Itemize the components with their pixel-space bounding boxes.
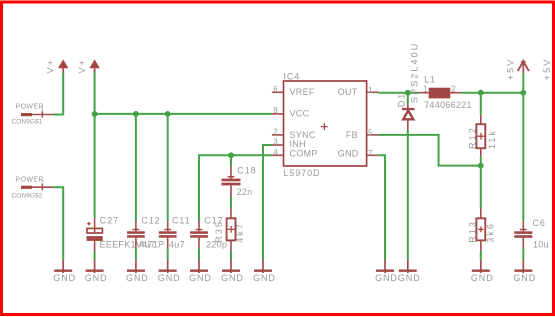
svg-text:R13: R13 xyxy=(468,220,478,243)
svg-text:GND: GND xyxy=(513,273,536,283)
diode D1 SPS2L40U xyxy=(397,42,420,130)
wire R12 to FB junction xyxy=(480,156,482,165)
op-amp / regulator IC4 L5970D xyxy=(284,71,367,178)
svg-text:1: 1 xyxy=(368,86,373,95)
svg-text:6: 6 xyxy=(273,85,278,94)
wire POWER1 to V+ xyxy=(53,72,63,114)
svg-text:GND: GND xyxy=(471,273,494,283)
svg-text:+5V: +5V xyxy=(506,58,516,81)
svg-text:D1: D1 xyxy=(397,92,407,108)
wire C12 branch xyxy=(135,114,137,221)
junction V+ rail / C27 xyxy=(92,111,98,117)
junction FB / R12 / R13 xyxy=(478,163,484,169)
svg-text:GND: GND xyxy=(398,273,421,283)
wire FB net xyxy=(378,135,481,166)
wire VCC rail xyxy=(95,113,272,115)
svg-text:1: 1 xyxy=(41,107,44,113)
supply V+ symbol 1 xyxy=(45,58,68,73)
svg-text:2: 2 xyxy=(273,127,278,136)
svg-text:GND: GND xyxy=(126,273,149,283)
wire V+2 stem down to VCC rail xyxy=(94,72,96,114)
junction rail / C11 xyxy=(165,111,171,117)
connector CON9G$1 (POWER) xyxy=(12,104,54,126)
capacitor C12 xyxy=(127,216,161,250)
svg-text:POWER: POWER xyxy=(16,177,44,184)
wire IC GND pin to GND symbol xyxy=(378,155,385,260)
svg-text:C12: C12 xyxy=(141,216,160,226)
svg-text:SPS2L40U: SPS2L40U xyxy=(410,42,420,103)
junction rail / C12 xyxy=(133,111,139,117)
svg-text:GND: GND xyxy=(85,273,108,283)
svg-text:1: 1 xyxy=(423,85,428,94)
ground symbol (C17) xyxy=(189,260,212,283)
svg-text:2: 2 xyxy=(41,180,44,186)
IC4 pin 4 COMP stub xyxy=(272,148,284,157)
svg-text:2: 2 xyxy=(451,85,456,94)
wire D1 to GND xyxy=(407,130,409,260)
resistor R13 xyxy=(468,208,496,251)
svg-text:R12: R12 xyxy=(468,126,478,149)
capacitor C6 xyxy=(514,218,549,249)
svg-text:744066221: 744066221 xyxy=(424,100,472,110)
IC4 pin 6 VREF stub xyxy=(272,85,284,94)
svg-text:4k7: 4k7 xyxy=(235,222,245,243)
ground symbol (R13) xyxy=(471,260,494,283)
wire R35 to GND xyxy=(230,251,232,261)
IC4 pin 8 VCC stub xyxy=(272,106,284,115)
IC4 pin 2 SYNC stub xyxy=(272,127,284,136)
wire C11 to GND xyxy=(167,248,169,260)
connector CON9G$1 pin 1 end cross xyxy=(41,107,44,117)
svg-text:GND: GND xyxy=(253,273,276,283)
svg-text:3: 3 xyxy=(273,138,278,147)
junction COMP / C18 xyxy=(228,152,234,158)
svg-text:C11: C11 xyxy=(172,216,191,226)
wire R13 branch xyxy=(480,166,482,208)
wire C18 to R35 xyxy=(230,197,232,208)
resistor R35 xyxy=(214,208,245,251)
wire C27 branch xyxy=(94,114,96,218)
inductor L1 744066221 xyxy=(419,75,472,110)
capacitor C11 xyxy=(159,216,191,250)
svg-text:IC4: IC4 xyxy=(284,71,301,81)
wire D1 branch xyxy=(407,93,409,105)
ground symbol (C11) xyxy=(158,260,181,283)
ground symbol (INH) xyxy=(253,260,276,283)
svg-text:4: 4 xyxy=(273,148,278,157)
ground symbol (C12) xyxy=(126,260,149,283)
svg-text:7: 7 xyxy=(368,149,373,158)
IC4 pin 3 INH stub xyxy=(272,138,284,147)
wire COMP net to C17 xyxy=(199,155,272,221)
svg-text:GND: GND xyxy=(375,273,398,283)
svg-text:COMP: COMP xyxy=(290,148,318,158)
svg-text:OUT: OUT xyxy=(338,87,358,97)
svg-text:3k6: 3k6 xyxy=(486,222,496,243)
wire C6 branch xyxy=(522,93,524,221)
svg-text:V+: V+ xyxy=(77,58,87,73)
ground symbol (C6) xyxy=(513,260,536,283)
wire C6 to GND xyxy=(522,248,524,260)
svg-text:V+: V+ xyxy=(45,58,55,73)
wire OUT net to D1/L1 xyxy=(378,92,418,94)
svg-text:L5970D: L5970D xyxy=(284,168,321,178)
ground symbol (POWER2) xyxy=(53,260,76,283)
svg-text:+5V: +5V xyxy=(542,58,552,81)
svg-text:8: 8 xyxy=(273,106,278,115)
svg-text:VCC: VCC xyxy=(290,109,310,119)
wire C27 to GND xyxy=(94,252,96,261)
svg-text:C6: C6 xyxy=(533,218,546,228)
svg-text:4u7: 4u7 xyxy=(140,239,156,249)
wire INH net to GND xyxy=(263,145,272,260)
wire C11 branch xyxy=(167,114,169,221)
svg-text:C27: C27 xyxy=(100,216,119,226)
svg-text:VREF: VREF xyxy=(290,87,315,97)
wire R12 branch xyxy=(480,93,482,115)
ground symbol (R35) xyxy=(221,260,244,283)
supply V+ symbol 2 xyxy=(77,58,100,73)
svg-text:FB: FB xyxy=(346,130,358,140)
svg-text:GND: GND xyxy=(338,148,359,158)
svg-text:10u: 10u xyxy=(533,239,549,249)
IC4 pin 7 GND stub xyxy=(367,149,379,158)
junction +5V rail / R12 xyxy=(478,90,484,96)
svg-text:L1: L1 xyxy=(424,75,436,85)
capacitor C27 xyxy=(87,216,165,252)
junction OUT / D1 xyxy=(405,90,411,96)
ground symbol (IC4 pin 7) xyxy=(375,260,398,283)
svg-text:GND: GND xyxy=(53,273,76,283)
connector CON9G$2 pin 2 end cross xyxy=(41,180,44,190)
wire C12 to GND xyxy=(135,248,137,260)
svg-text:GND: GND xyxy=(189,273,212,283)
capacitor C17 xyxy=(190,216,227,250)
connector CON9G$2 (POWER) xyxy=(12,177,54,200)
capacitor C18 xyxy=(222,165,257,197)
svg-text:R35: R35 xyxy=(214,220,224,243)
svg-text:5: 5 xyxy=(368,129,373,138)
ground symbol (D1) xyxy=(398,260,421,283)
svg-text:4u7: 4u7 xyxy=(169,239,185,249)
IC4 pin 1 OUT stub xyxy=(367,86,379,95)
svg-text:CON9G$1: CON9G$1 xyxy=(12,119,43,126)
ground symbol (C27) xyxy=(85,260,108,283)
svg-text:C18: C18 xyxy=(237,165,256,175)
supply +5V symbol xyxy=(506,58,529,81)
wire C18 branch xyxy=(230,155,232,166)
svg-text:11k: 11k xyxy=(487,129,497,149)
wire POWER2 to GND xyxy=(53,187,63,260)
wire C17 to GND xyxy=(198,248,200,260)
wire L1 to +5V rail xyxy=(461,92,523,94)
svg-text:GND: GND xyxy=(158,273,181,283)
resistor R12 xyxy=(468,115,498,156)
IC4 pin 5 FB stub xyxy=(367,129,379,138)
svg-text:GND: GND xyxy=(221,273,244,283)
svg-text:CON9G$2: CON9G$2 xyxy=(12,193,43,200)
svg-text:POWER: POWER xyxy=(16,104,44,111)
wire R13 to GND xyxy=(480,251,482,261)
svg-text:22n: 22n xyxy=(237,187,253,197)
wire +5V to C6 junction xyxy=(522,73,524,93)
junction +5V rail / C6 xyxy=(520,90,526,96)
